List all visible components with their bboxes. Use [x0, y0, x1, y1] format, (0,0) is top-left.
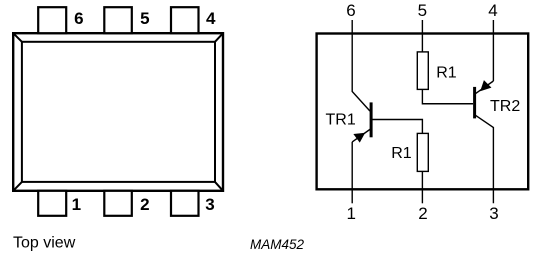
wire R1 upper to TR2 base	[422, 89, 473, 103]
svg-text:2: 2	[418, 204, 427, 223]
resistor R1 upper body	[417, 52, 428, 90]
transistor TR2 collector	[476, 115, 494, 203]
schematic boundary box	[317, 34, 529, 190]
transistor TR2 emitter with arrow	[475, 81, 493, 94]
package corner bevel top-right	[215, 33, 223, 42]
svg-text:1: 1	[346, 204, 355, 223]
svg-text:5: 5	[418, 1, 427, 20]
svg-text:6: 6	[346, 1, 355, 20]
svg-text:1: 1	[72, 195, 81, 214]
pin 2 pad	[104, 191, 132, 216]
resistor R1 lower body	[417, 133, 428, 171]
svg-text:2: 2	[140, 195, 149, 214]
svg-text:3: 3	[489, 204, 498, 223]
svg-text:5: 5	[140, 9, 149, 28]
pin 6 pad	[38, 7, 66, 33]
package corner bevel top-left	[13, 33, 22, 42]
svg-text:4: 4	[488, 1, 497, 20]
svg-text:MAM452: MAM452	[250, 237, 305, 252]
svg-text:3: 3	[205, 195, 214, 214]
wire pin 4 to TR2 emitter	[492, 20, 494, 81]
wire TR1 emitter to pin 1	[351, 142, 353, 203]
svg-text:6: 6	[74, 9, 83, 28]
transistor TR1 emitter with arrow	[352, 129, 370, 142]
svg-text:TR2: TR2	[490, 98, 520, 115]
svg-text:R1: R1	[391, 145, 412, 162]
pin 5 pad	[104, 7, 132, 33]
package corner bevel bottom-left	[13, 182, 22, 191]
transistor TR1 base lead	[373, 120, 423, 134]
wire pin 6 to TR1 collector	[352, 20, 370, 111]
pin 3 pad	[171, 191, 199, 216]
wire R1 lower to pin 2	[421, 171, 423, 203]
transistor TR2 base bar	[473, 87, 476, 119]
package outline (top view)	[13, 33, 223, 191]
package inner body edge	[22, 42, 215, 182]
pin 1 pad	[38, 191, 66, 216]
package corner bevel bottom-right	[215, 182, 223, 191]
svg-text:R1: R1	[436, 65, 457, 82]
transistor TR1 base bar	[370, 102, 373, 137]
svg-text:TR1: TR1	[326, 112, 356, 129]
svg-text:Top view: Top view	[13, 235, 76, 252]
wire pin 5 to R1	[421, 20, 423, 52]
pin 4 pad	[171, 7, 199, 33]
svg-text:4: 4	[206, 9, 216, 28]
